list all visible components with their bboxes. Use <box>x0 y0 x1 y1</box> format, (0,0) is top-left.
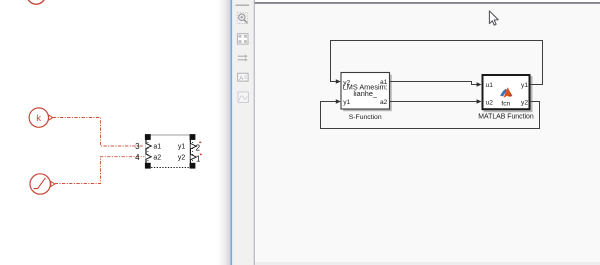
arrowhead into u1 <box>477 82 482 87</box>
mouse cursor <box>489 11 498 25</box>
arrowhead into u2 <box>477 99 482 104</box>
svg-text:4: 4 <box>135 153 140 162</box>
wire from ramp to port 4 <box>55 157 145 184</box>
ramp source circle <box>30 174 50 194</box>
svg-text:3: 3 <box>135 142 140 151</box>
ramp symbol <box>34 178 46 189</box>
top partial component circle <box>27 0 45 4</box>
interface block top border <box>146 134 191 136</box>
toolbar strip background <box>233 0 253 265</box>
svg-text:u2: u2 <box>486 99 494 106</box>
input port 3 arrow <box>146 143 152 148</box>
svg-text:a2: a2 <box>153 154 161 161</box>
svg-text:a2: a2 <box>380 99 388 106</box>
S-Function block body <box>341 73 390 110</box>
svg-text:u1: u1 <box>486 82 494 89</box>
S-Function block shadow <box>343 75 392 112</box>
svg-text:fcn: fcn <box>501 101 510 108</box>
corner handle bottom-left <box>145 163 151 169</box>
svg-text:lianhe_: lianhe_ <box>353 89 377 98</box>
output port 2 arrow <box>191 144 197 149</box>
canvas bottom strip <box>255 262 600 265</box>
toolbar canvas divider <box>254 0 255 265</box>
interface block bottom border <box>146 167 191 169</box>
toolbar handle <box>236 4 250 6</box>
svg-text:y2: y2 <box>178 154 186 161</box>
red wire stub port 1 <box>200 154 202 156</box>
canvas background <box>255 0 600 265</box>
blue splitter <box>230 0 232 265</box>
image tool icon <box>238 92 248 102</box>
MATLAB Function block shadow <box>484 76 533 112</box>
annotation tool icon <box>238 73 248 82</box>
svg-text:MATLAB Function: MATLAB Function <box>478 113 534 120</box>
svg-text:S-Function: S-Function <box>349 114 382 121</box>
svg-text:2: 2 <box>196 143 201 152</box>
zoom-in tool icon <box>237 13 247 24</box>
svg-text:y1: y1 <box>343 99 350 106</box>
feedback wire y2 to S-Function y1 input <box>321 102 540 129</box>
panel edge shadow <box>214 0 230 265</box>
ramp output port <box>51 182 55 187</box>
interface block body <box>146 135 191 168</box>
wire from K to port 3 <box>53 118 145 147</box>
MATLAB logo <box>500 87 512 98</box>
selection marquee right dotted line <box>192 139 194 164</box>
interface block right border <box>189 135 191 168</box>
wire a2 to u2 <box>390 101 477 103</box>
corner handle top-left <box>145 134 151 140</box>
canvas top border <box>255 2 600 4</box>
MATLAB Function block body <box>483 75 530 109</box>
divider shadow <box>255 0 259 265</box>
gain K source circle <box>29 108 48 127</box>
svg-text:y1: y1 <box>521 82 528 89</box>
svg-text:1: 1 <box>196 154 201 163</box>
fit-to-view tool icon <box>237 34 248 44</box>
svg-text:y1: y1 <box>178 144 186 151</box>
red wire stub port 2 <box>199 142 201 143</box>
svg-text:a1: a1 <box>153 144 161 151</box>
feedback wire y1 to S-Function y2 input <box>331 41 543 85</box>
corner handle bottom-right <box>190 163 196 169</box>
corner handle top-right <box>190 134 196 140</box>
splitter highlight <box>232 0 233 265</box>
sketch panel background <box>0 0 230 265</box>
selection marquee left dotted line <box>147 139 149 164</box>
svg-text:k: k <box>36 113 41 124</box>
canvas top white strip <box>255 0 600 2</box>
forwarding arrows tool icon <box>238 55 248 62</box>
gain K output port <box>49 115 53 120</box>
output port 1 arrow <box>191 154 197 159</box>
interface block left border <box>145 135 147 168</box>
arrowhead into y2 input <box>336 79 341 84</box>
wire a1 to u1 <box>390 82 477 85</box>
arrowhead into y1 input <box>336 99 341 104</box>
input port 4 arrow <box>146 154 152 159</box>
svg-text:y2: y2 <box>521 99 528 106</box>
